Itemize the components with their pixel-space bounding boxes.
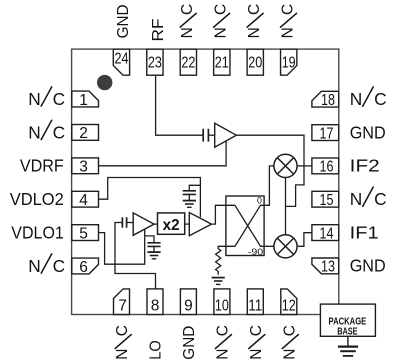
- pin 7: [114, 289, 130, 315]
- label N/C pin 7: [114, 325, 132, 360]
- wire VDLO2 pin 4 to LO amp2 bias: [99, 178, 201, 218]
- ground resistor: [212, 277, 225, 279]
- svg-text:2: 2: [79, 125, 88, 142]
- pin 14: [312, 225, 339, 241]
- svg-text:C: C: [114, 325, 131, 336]
- svg-text:18: 18: [321, 92, 335, 109]
- quadrature hybrid U4: [226, 196, 264, 256]
- svg-text:IF2: IF2: [350, 156, 380, 176]
- label N/C pin 11: [248, 325, 266, 360]
- svg-text:N: N: [281, 348, 298, 359]
- svg-text:N: N: [179, 27, 196, 38]
- pin 13: [312, 258, 339, 274]
- pin 1 indicator dot: [97, 75, 112, 90]
- svg-text:16: 16: [320, 159, 334, 176]
- capacitor C1 RF input: [203, 129, 208, 142]
- svg-text:N: N: [246, 27, 263, 38]
- IC package outline: [72, 49, 339, 314]
- label N/C pin 1: [28, 86, 65, 109]
- mixer M1 IF2: [274, 154, 297, 177]
- wire VDLO1 pin 5 to LO amp1 bias: [99, 230, 145, 265]
- svg-text:N: N: [248, 348, 265, 359]
- label N/C pin 12: [281, 325, 299, 360]
- svg-text:C: C: [374, 89, 386, 109]
- pin 11: [247, 289, 263, 315]
- label N/C pin 21: [213, 4, 231, 39]
- pin 18: [312, 91, 339, 107]
- svg-text:C: C: [280, 4, 297, 15]
- svg-text:IF1: IF1: [350, 222, 379, 242]
- svg-text:12: 12: [282, 297, 296, 314]
- svg-text:14: 14: [320, 225, 334, 242]
- label N/C pin 15: [350, 187, 387, 210]
- pin 1: [72, 91, 99, 107]
- svg-text:RF: RF: [150, 19, 167, 42]
- svg-text:N: N: [28, 122, 40, 142]
- ground LO2 bypass: [188, 194, 190, 200]
- op-amp U1 RF buffer: [215, 123, 237, 147]
- capacitor C2 LO input: [122, 217, 126, 227]
- svg-text:C: C: [179, 4, 196, 15]
- svg-text:C: C: [53, 256, 65, 276]
- svg-text:C: C: [246, 4, 263, 15]
- label N/C pin 6: [28, 253, 65, 276]
- svg-text:PACKAGE: PACKAGE: [329, 316, 367, 327]
- svg-text:10: 10: [215, 297, 229, 314]
- svg-text:22: 22: [181, 54, 195, 71]
- label N/C pin 19: [280, 4, 298, 39]
- pin 12: [281, 289, 297, 315]
- wire VDRF pin 3 to RF amp bias: [99, 141, 227, 166]
- wire LO amp2 to hybrid: [212, 205, 226, 224]
- capacitor C3 LO1 bypass: [145, 236, 154, 243]
- wire RF splitter between mixers: [285, 178, 287, 235]
- label N/C pin 2: [28, 120, 65, 143]
- svg-text:VDLO2: VDLO2: [10, 189, 64, 209]
- svg-text:N: N: [114, 348, 131, 359]
- svg-text:20: 20: [248, 54, 262, 71]
- svg-text:6: 6: [79, 259, 88, 276]
- wire hybrid 0 port to mixer M1: [264, 166, 274, 205]
- svg-text:21: 21: [215, 54, 229, 71]
- svg-text:GND: GND: [350, 256, 386, 276]
- pin 20: [247, 49, 263, 75]
- svg-text:24: 24: [115, 51, 129, 68]
- wire cap to LO amp: [127, 222, 134, 224]
- pin 15: [312, 191, 339, 207]
- svg-text:N: N: [28, 89, 40, 109]
- wire doubler to LO amp2: [185, 223, 190, 225]
- wire RF amp output to mixer splitter: [236, 135, 304, 206]
- wire RF pin 23 to coupling cap: [156, 75, 203, 135]
- svg-text:C: C: [374, 189, 386, 209]
- svg-text:0: 0: [257, 195, 262, 205]
- svg-text:3: 3: [79, 159, 88, 176]
- svg-text:N: N: [280, 27, 297, 38]
- ground package base: [338, 336, 358, 356]
- wire mixer M1 to IF2 pin 16: [297, 165, 312, 167]
- pin 10: [214, 289, 230, 315]
- svg-text:8: 8: [151, 297, 160, 314]
- svg-text:N: N: [28, 256, 40, 276]
- svg-text:VDRF: VDRF: [20, 156, 64, 176]
- pin 23: [147, 49, 163, 75]
- svg-text:N: N: [350, 189, 362, 209]
- pin 2: [72, 125, 99, 141]
- svg-text:23: 23: [148, 54, 162, 71]
- capacitor C4 LO2 bypass: [189, 185, 200, 190]
- pin 21: [214, 49, 230, 75]
- svg-text:N: N: [213, 27, 230, 38]
- svg-text:15: 15: [320, 192, 334, 209]
- svg-text:x2: x2: [163, 217, 180, 234]
- svg-text:11: 11: [248, 297, 262, 314]
- svg-text:4: 4: [79, 192, 88, 209]
- label N/C pin 20: [246, 4, 264, 39]
- svg-text:GND: GND: [350, 122, 386, 142]
- pin 19: [281, 49, 297, 75]
- pin 22: [180, 49, 196, 75]
- svg-text:C: C: [213, 4, 230, 15]
- pin 24: [113, 49, 129, 75]
- label N/C pin 10: [214, 325, 232, 360]
- svg-text:13: 13: [321, 259, 335, 276]
- svg-text:1: 1: [79, 92, 88, 109]
- resistor R1 LO termination: [216, 246, 226, 274]
- frequency doubler x2: [158, 213, 185, 234]
- op-amp U3 LO amplifier 2: [189, 213, 211, 236]
- svg-text:GND: GND: [115, 4, 132, 38]
- pin 8: [147, 289, 163, 315]
- pin 16: [312, 158, 339, 174]
- pin 4: [72, 191, 99, 207]
- svg-text:N: N: [214, 348, 231, 359]
- svg-text:5: 5: [79, 225, 88, 242]
- svg-text:C: C: [281, 325, 298, 336]
- svg-text:C: C: [214, 325, 231, 336]
- svg-text:7: 7: [118, 297, 127, 314]
- svg-text:GND: GND: [181, 326, 198, 360]
- label N/C pin 22: [179, 4, 197, 39]
- wire hybrid -90 port to mixer M2: [264, 245, 274, 247]
- svg-text:C: C: [53, 122, 65, 142]
- svg-text:VDLO1: VDLO1: [11, 223, 64, 243]
- wire mixer M2 to IF1 pin 14: [297, 233, 312, 247]
- ground LO1 bypass: [153, 246, 155, 251]
- svg-text:19: 19: [282, 54, 296, 71]
- svg-text:-90: -90: [248, 247, 263, 257]
- svg-text:N: N: [350, 89, 362, 109]
- svg-text:9: 9: [184, 297, 193, 314]
- pin 17: [312, 125, 339, 141]
- label N/C pin 18: [350, 86, 387, 109]
- svg-text:C: C: [53, 89, 65, 109]
- wire LO pin 8 to coupling cap: [115, 223, 156, 289]
- svg-text:17: 17: [320, 125, 334, 142]
- pin 3: [72, 158, 99, 174]
- svg-text:LO: LO: [147, 340, 164, 360]
- package base paddle: [320, 304, 375, 336]
- pin 9: [180, 289, 196, 315]
- wire cap to RF amp: [208, 134, 214, 136]
- pin 6: [72, 258, 99, 274]
- pin 5: [72, 225, 99, 241]
- svg-text:BASE: BASE: [337, 327, 358, 338]
- svg-text:C: C: [248, 325, 265, 336]
- op-amp U2 LO amplifier 1: [133, 213, 154, 235]
- wire LO amp1 to doubler: [154, 223, 157, 225]
- mixer M2 IF1: [274, 235, 297, 258]
